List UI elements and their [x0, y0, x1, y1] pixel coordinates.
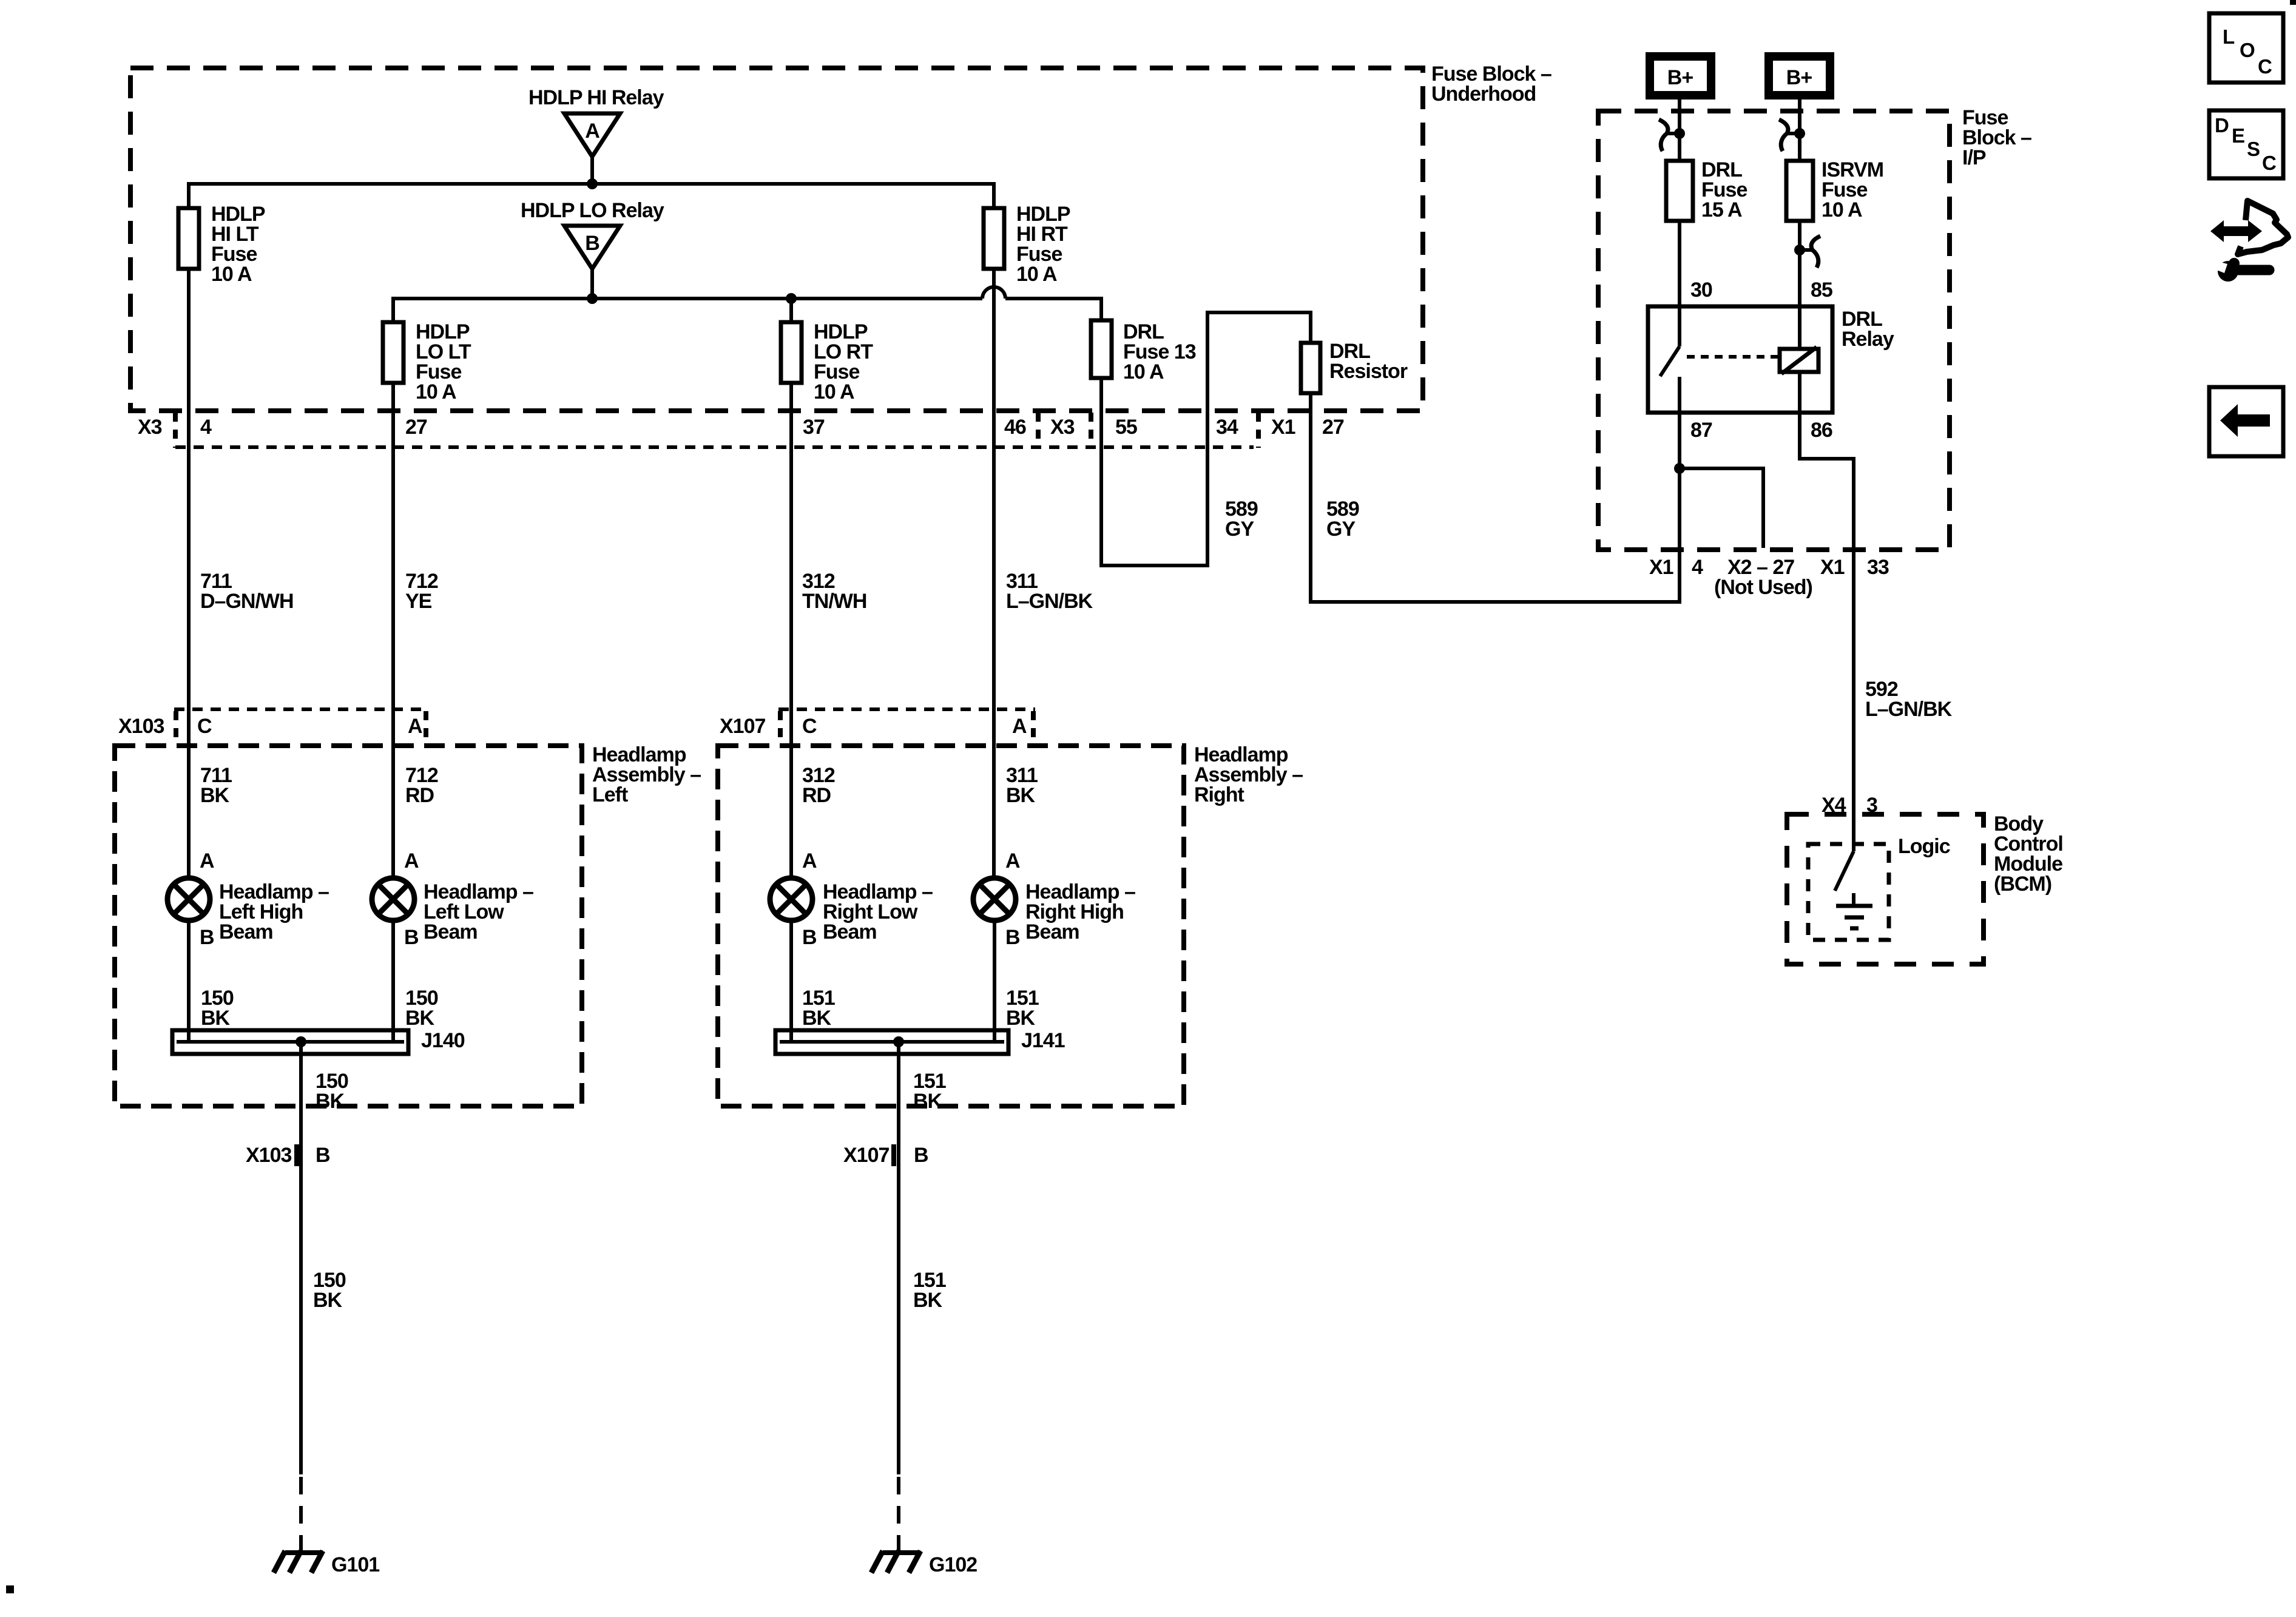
label wire 592 L-GN/BK	[1865, 678, 1953, 721]
svg-text:X3: X3	[1050, 416, 1075, 439]
wire 151 BK output right	[897, 1042, 900, 1474]
svg-text:A: A	[404, 849, 419, 873]
svg-text:37: 37	[803, 416, 825, 439]
svg-text:10 A: 10 A	[1016, 263, 1057, 286]
splice J140	[172, 1029, 465, 1054]
svg-text:Beam: Beam	[424, 920, 478, 944]
connector X107 pin B	[843, 1144, 928, 1167]
wire 151 BK from right high lamp	[993, 920, 996, 1042]
wire dashed to G102	[897, 1477, 900, 1551]
svg-text:Right: Right	[1194, 783, 1244, 806]
svg-text:85: 85	[1811, 279, 1832, 302]
svg-text:10 A: 10 A	[1822, 198, 1862, 221]
wire HI bus	[189, 184, 994, 209]
svg-text:HDLP LO Relay: HDLP LO Relay	[521, 199, 664, 222]
svg-text:BK: BK	[201, 1007, 231, 1030]
svg-text:BK: BK	[913, 1090, 943, 1113]
svg-text:TN/WH: TN/WH	[802, 590, 866, 613]
wire X2-27 stub not used	[1680, 468, 1763, 548]
clip bus clip ISRVM fuse	[1779, 120, 1805, 151]
svg-text:Left: Left	[592, 783, 628, 806]
svg-text:BK: BK	[200, 784, 230, 807]
svg-text:I/P: I/P	[1962, 146, 1986, 169]
node junction A-bus	[587, 178, 598, 189]
svg-text:4: 4	[200, 416, 212, 439]
svg-text:X107: X107	[720, 715, 765, 738]
pin 87	[1690, 419, 1712, 442]
label 150 BK left low	[405, 987, 438, 1030]
svg-text:Relay: Relay	[1842, 328, 1894, 351]
wire B+ to DRL fuse	[1678, 100, 1681, 161]
relay HDLP LO Relay	[521, 199, 664, 299]
fuse HDLP LO LT 10A	[383, 320, 471, 403]
svg-text:Beam: Beam	[1025, 920, 1079, 944]
svg-text:30: 30	[1690, 279, 1712, 302]
svg-text:(Not Used): (Not Used)	[1714, 576, 1812, 599]
wire ISRVM fuse to coil pin 85	[1798, 221, 1801, 349]
wire B+ to ISRVM fuse	[1798, 100, 1801, 161]
svg-text:B: B	[316, 1144, 330, 1167]
svg-text:C: C	[2262, 152, 2276, 174]
svg-text:4: 4	[1692, 556, 1703, 579]
fuse block IP enclosure	[1598, 106, 2031, 550]
node junction B-bus	[587, 293, 598, 304]
wire 711 circuit down to left high lamp	[187, 269, 191, 879]
svg-text:GY: GY	[1326, 518, 1356, 541]
svg-text:X1: X1	[1820, 556, 1845, 579]
relay HDLP HI Relay	[528, 86, 664, 184]
icon back arrow	[2209, 387, 2283, 456]
svg-text:A: A	[1005, 849, 1020, 873]
svg-text:Logic: Logic	[1898, 835, 1950, 858]
wire DRL fuse to relay pin 30	[1678, 221, 1681, 306]
label wire 712 RD	[405, 764, 438, 807]
svg-text:C: C	[802, 715, 817, 738]
connector X107 headlamp right	[720, 709, 1035, 745]
svg-text:34: 34	[1216, 416, 1238, 439]
wire 151 BK from right low lamp	[789, 920, 793, 1042]
node junction J141	[893, 1036, 904, 1047]
wire 589 GY from resistor to relay pin 87	[1311, 393, 1680, 602]
svg-text:A: A	[200, 849, 214, 873]
pin A right low	[802, 849, 817, 873]
wire 589 GY from DRL fuse to resistor	[1101, 312, 1311, 565]
pin B left low	[404, 926, 419, 949]
fuse DRL Fuse 13 10A	[1091, 320, 1196, 383]
svg-text:O: O	[2240, 39, 2255, 61]
label wire 312 RD	[802, 764, 835, 807]
relay DRL Relay	[1648, 306, 1894, 413]
svg-text:X1: X1	[1271, 416, 1295, 439]
headlamp assembly right enclosure	[718, 743, 1303, 1106]
ground G102	[871, 1551, 977, 1576]
svg-text:BK: BK	[913, 1289, 943, 1312]
connector X1 pin 4	[1649, 556, 1703, 579]
lamp Headlamp Left High Beam	[167, 878, 329, 944]
svg-text:C: C	[2258, 55, 2272, 78]
wire 592 L-GN/BK pin 86 to BCM	[1800, 413, 1854, 851]
label 150 BK below J140	[316, 1070, 348, 1113]
pin B right high	[1005, 926, 1020, 949]
svg-text:BK: BK	[1006, 1007, 1036, 1030]
lamp Headlamp Right Low Beam	[770, 878, 933, 944]
power feed B+ right	[1764, 52, 1834, 100]
svg-text:L–GN/BK: L–GN/BK	[1006, 590, 1093, 613]
fuse HDLP LO RT 10A	[781, 320, 873, 403]
fuse block underhood enclosure	[130, 62, 1551, 411]
wire dashed to G101	[299, 1477, 303, 1551]
svg-text:87: 87	[1690, 419, 1712, 442]
svg-text:X103: X103	[118, 715, 164, 738]
svg-text:B: B	[200, 926, 214, 949]
svg-text:B: B	[585, 232, 599, 255]
icon double arrow with outline and wrench	[2210, 201, 2288, 282]
svg-text:L: L	[2223, 25, 2235, 48]
ground G101	[274, 1551, 379, 1576]
svg-text:B+: B+	[1667, 66, 1693, 89]
svg-text:10 A: 10 A	[211, 263, 252, 286]
fuse DRL Fuse 15A	[1666, 158, 1747, 221]
svg-text:A: A	[802, 849, 817, 873]
svg-text:J141: J141	[1021, 1029, 1065, 1052]
mark page corner dot	[2290, 0, 2296, 5]
label 151 BK ground lead	[913, 1269, 946, 1312]
splice J141	[775, 1029, 1065, 1054]
svg-text:C: C	[197, 715, 212, 738]
node junction J140	[295, 1036, 306, 1047]
svg-text:RD: RD	[802, 784, 831, 807]
headlamp assembly left enclosure	[115, 743, 701, 1106]
svg-text:BK: BK	[313, 1289, 343, 1312]
svg-text:BK: BK	[405, 1007, 435, 1030]
label wire 712 YE	[405, 570, 438, 613]
svg-text:X107: X107	[843, 1144, 889, 1167]
mark bottom period	[6, 1585, 14, 1593]
svg-text:Beam: Beam	[219, 920, 273, 944]
svg-text:B: B	[1005, 926, 1020, 949]
svg-text:L–GN/BK: L–GN/BK	[1865, 698, 1953, 721]
wire 311 circuit down to right high lamp	[992, 269, 996, 879]
connector X1 pin 33	[1820, 556, 1889, 579]
switch relay contact	[1660, 306, 1680, 413]
power feed B+ left	[1646, 52, 1715, 100]
svg-text:D: D	[2215, 114, 2229, 137]
connector X103 headlamp left	[118, 709, 428, 745]
svg-text:D–GN/WH: D–GN/WH	[200, 590, 294, 613]
svg-text:Beam: Beam	[823, 920, 877, 944]
fuse HDLP HI LT 10A	[178, 203, 265, 286]
pin B left high	[200, 926, 214, 949]
wire 312 circuit down to right low lamp	[789, 383, 793, 879]
svg-text:10 A: 10 A	[416, 380, 456, 403]
svg-text:GY: GY	[1225, 518, 1254, 541]
label wire 312 TN/WH	[802, 570, 866, 613]
lamp Headlamp Right High Beam	[973, 878, 1135, 944]
svg-text:X3: X3	[138, 416, 162, 439]
svg-text:G101: G101	[331, 1553, 379, 1576]
svg-text:G102: G102	[929, 1553, 977, 1576]
label 150 BK ground lead	[313, 1269, 346, 1312]
label 589 GY left	[1225, 498, 1258, 541]
wire relay actuator dashed	[1687, 355, 1778, 359]
switch BCM logic driver	[1835, 851, 1854, 891]
svg-text:33: 33	[1867, 556, 1889, 579]
connector strip X3 underhood	[138, 413, 1344, 448]
lamp Headlamp Left Low Beam	[372, 878, 533, 944]
svg-text:10 A: 10 A	[814, 380, 854, 403]
pin A right high	[1005, 849, 1020, 873]
label 151 BK right low	[802, 987, 835, 1030]
svg-text:Resistor: Resistor	[1329, 360, 1408, 383]
wire LO bus with hop	[393, 287, 1101, 323]
svg-text:X103: X103	[246, 1144, 291, 1167]
pin A left high	[200, 849, 214, 873]
pin B right low	[802, 926, 817, 949]
svg-text:BK: BK	[316, 1090, 345, 1113]
wire 150 BK output left	[299, 1042, 303, 1474]
connector X2 pin 27 not used	[1714, 556, 1812, 599]
logic block	[1808, 835, 1950, 940]
svg-text:(BCM): (BCM)	[1994, 873, 2051, 896]
svg-text:55: 55	[1115, 416, 1137, 439]
svg-text:27: 27	[1322, 416, 1344, 439]
svg-text:B: B	[404, 926, 419, 949]
label 589 GY right	[1326, 498, 1359, 541]
node junction pin 87 branch	[1674, 463, 1685, 474]
svg-text:YE: YE	[405, 590, 432, 613]
wire 150 BK from left high lamp	[187, 920, 191, 1042]
wire 712 circuit down to left low lamp	[391, 383, 395, 879]
icon LOC	[2209, 13, 2283, 83]
svg-text:10 A: 10 A	[1123, 360, 1164, 383]
svg-text:46: 46	[1004, 416, 1026, 439]
pin 85	[1811, 279, 1832, 302]
label wire 711 BK	[200, 764, 232, 807]
svg-text:86: 86	[1811, 419, 1832, 442]
svg-text:E: E	[2232, 124, 2244, 147]
svg-text:B: B	[914, 1144, 928, 1167]
fuse ISRVM Fuse 10A	[1786, 158, 1883, 221]
connector X4 pin 3	[1822, 794, 1877, 817]
label wire 711 D-GN/WH	[200, 570, 294, 613]
pin 30	[1690, 279, 1712, 302]
icon DESC	[2209, 110, 2283, 178]
svg-text:15 A: 15 A	[1701, 198, 1742, 221]
svg-text:RD: RD	[405, 784, 434, 807]
pin A left low	[404, 849, 419, 873]
label wire 311 L-GN/BK	[1006, 570, 1093, 613]
clip bus clip DRL fuse	[1659, 120, 1685, 151]
node junction LO-RT	[786, 293, 797, 323]
fuse HDLP HI RT 10A	[984, 203, 1070, 286]
svg-text:B: B	[802, 926, 817, 949]
module BCM enclosure	[1787, 812, 2063, 964]
label 151 BK below J141	[913, 1070, 946, 1113]
coil relay coil	[1780, 347, 1818, 413]
svg-text:J140: J140	[421, 1029, 465, 1052]
svg-text:A: A	[585, 120, 599, 143]
svg-text:BK: BK	[1006, 784, 1036, 807]
clip bus clip below ISRVM	[1794, 236, 1820, 268]
svg-text:A: A	[408, 715, 422, 738]
svg-text:B+: B+	[1786, 66, 1812, 89]
svg-text:X1: X1	[1649, 556, 1673, 579]
label 151 BK right high	[1006, 987, 1039, 1030]
svg-text:Underhood: Underhood	[1431, 83, 1536, 106]
svg-text:27: 27	[405, 416, 427, 439]
label 150 BK left high	[201, 987, 234, 1030]
ground BCM internal	[1836, 893, 1872, 928]
wire 150 BK from left low lamp	[391, 920, 395, 1042]
svg-text:BK: BK	[802, 1007, 832, 1030]
svg-text:A: A	[1012, 715, 1027, 738]
svg-text:HDLP HI Relay: HDLP HI Relay	[528, 86, 664, 109]
resistor DRL Resistor	[1301, 340, 1408, 393]
svg-text:S: S	[2247, 138, 2260, 160]
label wire 311 BK	[1006, 764, 1038, 807]
connector X103 pin B	[246, 1144, 330, 1167]
pin 86	[1811, 419, 1832, 442]
